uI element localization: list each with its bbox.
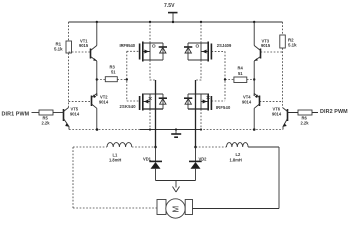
inductor L1 [73, 146, 107, 148]
body diode of V2 [143, 94, 167, 109]
wire: gate stub bottom [127, 100, 139, 102]
svg-text:5.1k: 5.1k [288, 43, 297, 48]
wire: gate stub bottom right [211, 100, 225, 102]
body diode of V1 [150, 43, 167, 60]
svg-text:2SJ409: 2SJ409 [217, 43, 232, 48]
gate bus right [224, 51, 226, 101]
svg-text:DIR2 PWM: DIR2 PWM [320, 109, 348, 115]
svg-text:5.1k: 5.1k [54, 47, 63, 52]
svg-text:7.5V: 7.5V [164, 3, 175, 9]
body diode of V4 [184, 94, 208, 109]
svg-text:2.2k: 2.2k [42, 121, 51, 126]
wire: right bridge output [196, 60, 202, 80]
svg-text:9014: 9014 [70, 112, 80, 117]
svg-text:51: 51 [238, 71, 243, 76]
pin mark top left MOSFET [153, 45, 156, 48]
inductor L2 [196, 146, 227, 148]
resistor R2 [280, 35, 286, 48]
svg-text:1.8mH: 1.8mH [109, 158, 121, 163]
transistor VT1 [90, 49, 92, 59]
wire: V4 source to ground rail [200, 109, 202, 130]
wire: right push-pull output column [253, 61, 255, 96]
wire: VT1 collector to rail [96, 22, 98, 46]
transistor VT4 [259, 96, 261, 107]
wire: MOSFET V1 source to rail [149, 22, 151, 43]
wire: left column from rail [68, 22, 70, 41]
wire: left loop down [72, 147, 74, 208]
resistor R6 [298, 110, 312, 115]
node: right output / L2 junction [194, 146, 197, 149]
transistor VT6 [287, 109, 289, 121]
diode VD2 [195, 147, 197, 161]
svg-text:VD1: VD1 [143, 157, 152, 162]
ground arrow to motor [173, 181, 180, 193]
pin mark bottom left MOSFET [149, 97, 152, 100]
wire: motor right lead [193, 208, 280, 210]
transistor VT2 [91, 96, 93, 107]
transistor VT3 [260, 49, 262, 59]
wire: push-pull output column [96, 61, 98, 96]
wire: VT3 collector to rail [253, 22, 255, 46]
transistor VT5 [63, 109, 65, 121]
MOSFET V4 IRF540 (bottom right) [201, 94, 231, 111]
gate bus left [126, 51, 128, 101]
wire: diode anode bus [156, 180, 196, 182]
svg-text:9014: 9014 [242, 100, 252, 105]
pin mark bottom right MOSFET [207, 96, 210, 99]
body diode of V3 [184, 43, 201, 60]
resistor R1 [66, 41, 72, 53]
wire: VT2 collector to ground rail [96, 94, 98, 130]
wire: left bridge output [150, 60, 156, 80]
wire: base node column [68, 53, 70, 108]
wire: VT2 base line [69, 100, 92, 102]
wire: V3 source to rail [200, 22, 202, 43]
svg-text:M: M [171, 206, 180, 213]
power rail [69, 21, 283, 23]
svg-text:9015: 9015 [79, 43, 89, 48]
wire: input lead [32, 112, 40, 114]
supply terminal [168, 12, 178, 14]
svg-text:R4: R4 [238, 66, 244, 71]
resistor R5 [39, 110, 53, 115]
wire: gate stub top right [211, 50, 225, 52]
wire: VT3 base line [261, 51, 283, 53]
pin mark top right MOSFET [196, 45, 199, 48]
svg-text:IRF9540: IRF9540 [120, 43, 136, 48]
motor M [157, 199, 193, 218]
MOSFET V3 2SJ409 (top right) [201, 42, 232, 62]
node: left output / L1 junction [154, 146, 157, 149]
wire: bottom left run to motor [73, 207, 157, 209]
svg-text:DIR1 PWM: DIR1 PWM [2, 112, 30, 118]
ground symbol [175, 130, 177, 134]
svg-text:9015: 9015 [261, 43, 271, 48]
svg-text:51: 51 [111, 69, 116, 74]
wire: V2 source to ground rail [149, 109, 151, 130]
resistor R4 [225, 79, 254, 81]
ground rail [69, 129, 283, 131]
svg-text:L2: L2 [236, 152, 242, 157]
svg-text:VD2: VD2 [199, 157, 208, 162]
diode VD1 [155, 147, 157, 161]
MOSFET V1 IRF9540 (top left) [120, 42, 151, 62]
svg-text:2.2k: 2.2k [301, 121, 310, 126]
wire: right column from rail [282, 22, 284, 35]
MOSFET V2 IRF540 (bottom left) [120, 94, 151, 111]
svg-text:2SK540: 2SK540 [120, 104, 137, 109]
wire: VT1 base line [69, 51, 91, 53]
wire: right loop up [278, 147, 280, 209]
junction dots on power rail [96, 21, 98, 23]
svg-text:9014: 9014 [99, 100, 109, 105]
wire: gate stub top [127, 50, 139, 52]
resistor R3 [97, 79, 127, 81]
svg-text:1.8mH: 1.8mH [230, 158, 242, 163]
svg-text:9014: 9014 [272, 112, 282, 117]
svg-text:IRF540: IRF540 [216, 105, 231, 110]
wire: VT4 base line [260, 100, 283, 102]
